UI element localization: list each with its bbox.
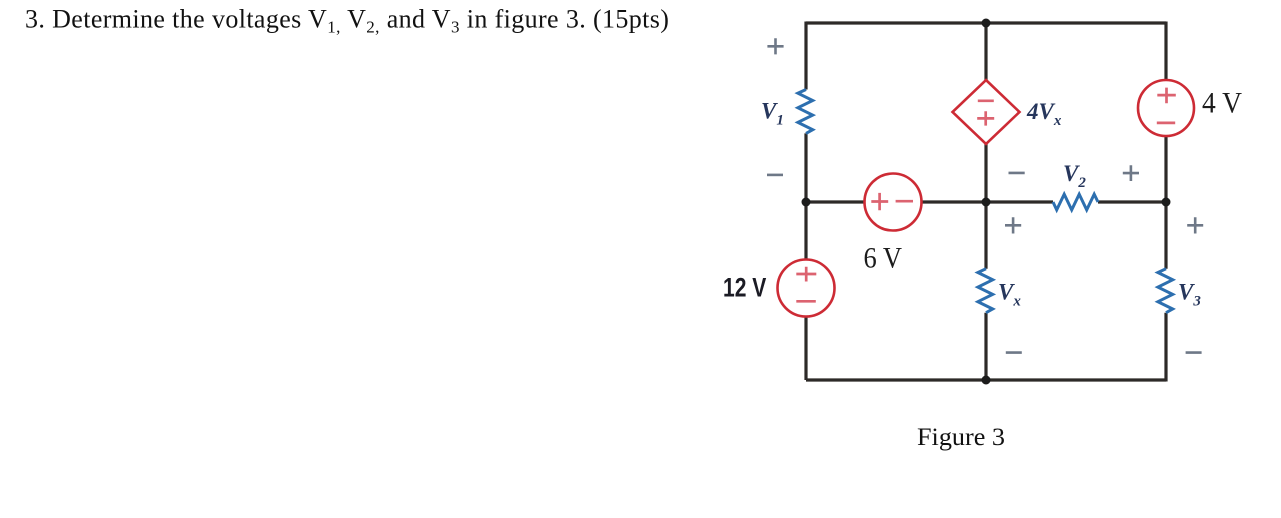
node right middle junction (1162, 198, 1171, 207)
wire middle horizontal (resistor V2 to right node) (1098, 200, 1166, 203)
wire right vertical (top corner to 4V source) (1164, 22, 1167, 82)
resistor Vx zigzag (978, 269, 993, 313)
svg-text:4 V: 4 V (1202, 87, 1242, 120)
svg-text:V2: V2 (1063, 161, 1086, 191)
polarity plus for Vx (1005, 217, 1021, 233)
wire right vertical (4V source to right node) (1164, 136, 1167, 202)
resistor V2 zigzag (horizontal) (1053, 194, 1098, 210)
svg-text:6 V: 6 V (864, 242, 903, 275)
figure caption (917, 422, 1005, 451)
value label V3 (1178, 280, 1201, 310)
polarity plus for V2 (right) (1123, 165, 1139, 181)
polarity minus for V2 (left) (1009, 172, 1025, 175)
wire middle vertical (resistor Vx to bottom node) (984, 313, 987, 380)
svg-text:12 V: 12 V (723, 273, 766, 303)
node left middle junction (802, 198, 811, 207)
polarity plus for V1 (767, 38, 783, 54)
value label 12 V (723, 273, 766, 303)
wire right vertical (right node to resistor V3) (1164, 202, 1167, 269)
value label V2 (1063, 161, 1086, 191)
voltage source 4 V (circle with + - marks) (1138, 80, 1194, 136)
wire middle horizontal (left node to 6V source) (806, 200, 864, 203)
resistor V3 zigzag (1158, 269, 1173, 313)
voltage source 12 V (circle with + - marks) (778, 260, 835, 317)
wire top horizontal (top-left corner to top-right corner) (806, 21, 1166, 24)
wire middle vertical (diamond to center node) (984, 144, 987, 202)
value label V1 (761, 99, 784, 129)
svg-text:V1: V1 (761, 99, 784, 129)
wire left vertical below 12V source to bottom corner (804, 317, 807, 380)
node top middle junction (982, 19, 991, 28)
wire middle vertical (center node to resistor Vx) (984, 202, 987, 269)
wire middle horizontal (6V source to center node) (922, 200, 1053, 203)
wire bottom from bottom-left corner to bottom-right corner (806, 378, 1166, 381)
value label 4Vx (1026, 99, 1062, 129)
voltage source 6 V (circle with + - marks) (865, 174, 922, 231)
wire middle vertical upper (top node to diamond) (984, 23, 987, 80)
value label Vx (998, 280, 1021, 310)
svg-text:4Vx: 4Vx (1026, 99, 1062, 129)
polarity minus for Vx (1006, 351, 1022, 354)
wire left vertical upper segment (804, 22, 807, 90)
node bottom middle junction (982, 376, 991, 385)
polarity minus for V3 (1186, 351, 1202, 354)
polarity minus for V1 (767, 174, 783, 177)
svg-text:Vx: Vx (998, 280, 1021, 310)
value label 4 V (1202, 87, 1242, 120)
dependent voltage source 4Vx (diamond with - + marks) (953, 80, 1020, 144)
node center junction (982, 198, 991, 207)
wire right vertical (resistor V3 to bottom-right corner) (1164, 313, 1167, 382)
value label 6 V (864, 242, 903, 275)
problem title text (25, 5, 669, 37)
svg-text:Figure 3: Figure 3 (917, 422, 1005, 451)
wire left vertical between resistor V1 and middle node (804, 133, 807, 259)
svg-text:V3: V3 (1178, 280, 1201, 310)
resistor V1 zigzag (798, 90, 813, 134)
polarity plus for V3 (1187, 217, 1203, 233)
svg-text:3. Determine the voltages V1,: 3. Determine the voltages V1, V2, and V3… (25, 5, 669, 37)
